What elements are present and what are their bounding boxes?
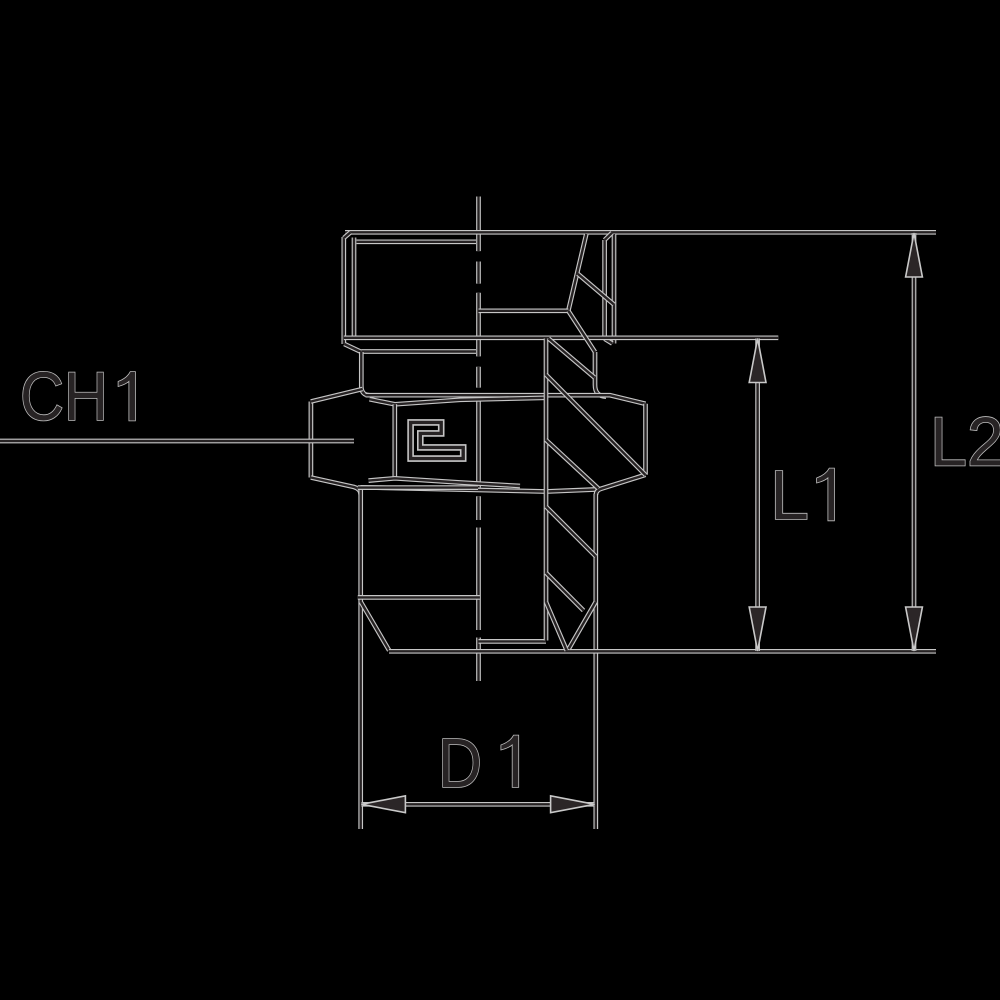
bottom-left chamfer [361,602,389,651]
dimension line L2 [912,233,917,651]
L2 arrow down [906,607,923,651]
hex bottom face line [361,487,598,491]
thread seat line with L1 extension [344,335,779,340]
hex top face line [366,395,646,404]
hex bottom-right slant with fillet [596,475,646,495]
hatch line F [546,573,584,611]
cone lower slant [568,311,595,352]
hex bottom chamfer dip line [369,478,521,486]
hatch line E [546,507,596,557]
dimension line L1 [755,339,760,652]
hex top-left slant [311,389,363,402]
bore bottom chamfer right [569,602,596,649]
stud right end top chamfer [605,233,612,240]
bore shoulder line [479,308,569,313]
stud thread inner top line [357,239,477,244]
svg-text:CH: CH [20,358,108,435]
stud thread inner line left [352,238,357,339]
centerline (vertical axis) [476,197,481,682]
stud right end bottom chamfer [605,339,613,344]
L2 arrow up [906,233,923,277]
bore wall left edge [544,339,549,641]
label D1 digit 1 [501,736,518,788]
L1 arrow down [749,607,766,651]
stud right end inner line [602,240,607,339]
hex right edge [643,404,648,475]
hex left edge [309,402,314,478]
hatch line C [546,375,646,476]
CH1 leader line [0,439,354,444]
hatch line B [549,339,595,378]
svg-text:L: L [770,456,809,534]
D1 arrow left [361,796,405,813]
hex top chamfer dip line [370,398,547,405]
neck right edge with fillet [595,352,606,397]
svg-text:L2: L2 [930,403,1000,481]
hatch line A [578,274,614,305]
body left edge with D1 extension [358,490,363,829]
neck left edge with fillet [361,352,369,395]
bore bottom chamfer left [546,602,567,651]
sealing cone slant [568,234,586,311]
D1 arrow right [551,796,595,813]
svg-text:D: D [438,724,482,802]
thread relief line [361,349,476,354]
hatch line D [546,440,599,489]
bore bottom line [479,639,547,644]
label CH1 digit 1 [119,372,136,421]
bottom shelf line [358,595,480,600]
body right edge with D1 extension [593,494,598,829]
body shoulder line [358,485,478,490]
hex face boundary [392,404,397,479]
bottom face line with extension [389,649,936,654]
hex bottom-left slant with fillet [311,478,361,495]
stud top line with L2 extension [345,230,936,235]
L1 arrow up [749,339,766,383]
label L1 digit 1 [817,469,834,521]
thread runout diagonal [344,344,361,352]
stud left outer edge [341,237,346,344]
manufacturer logo [411,422,464,458]
dimension line D1 [361,802,594,807]
stud right outer edge [612,234,617,344]
stud top-left chamfer [344,232,351,238]
